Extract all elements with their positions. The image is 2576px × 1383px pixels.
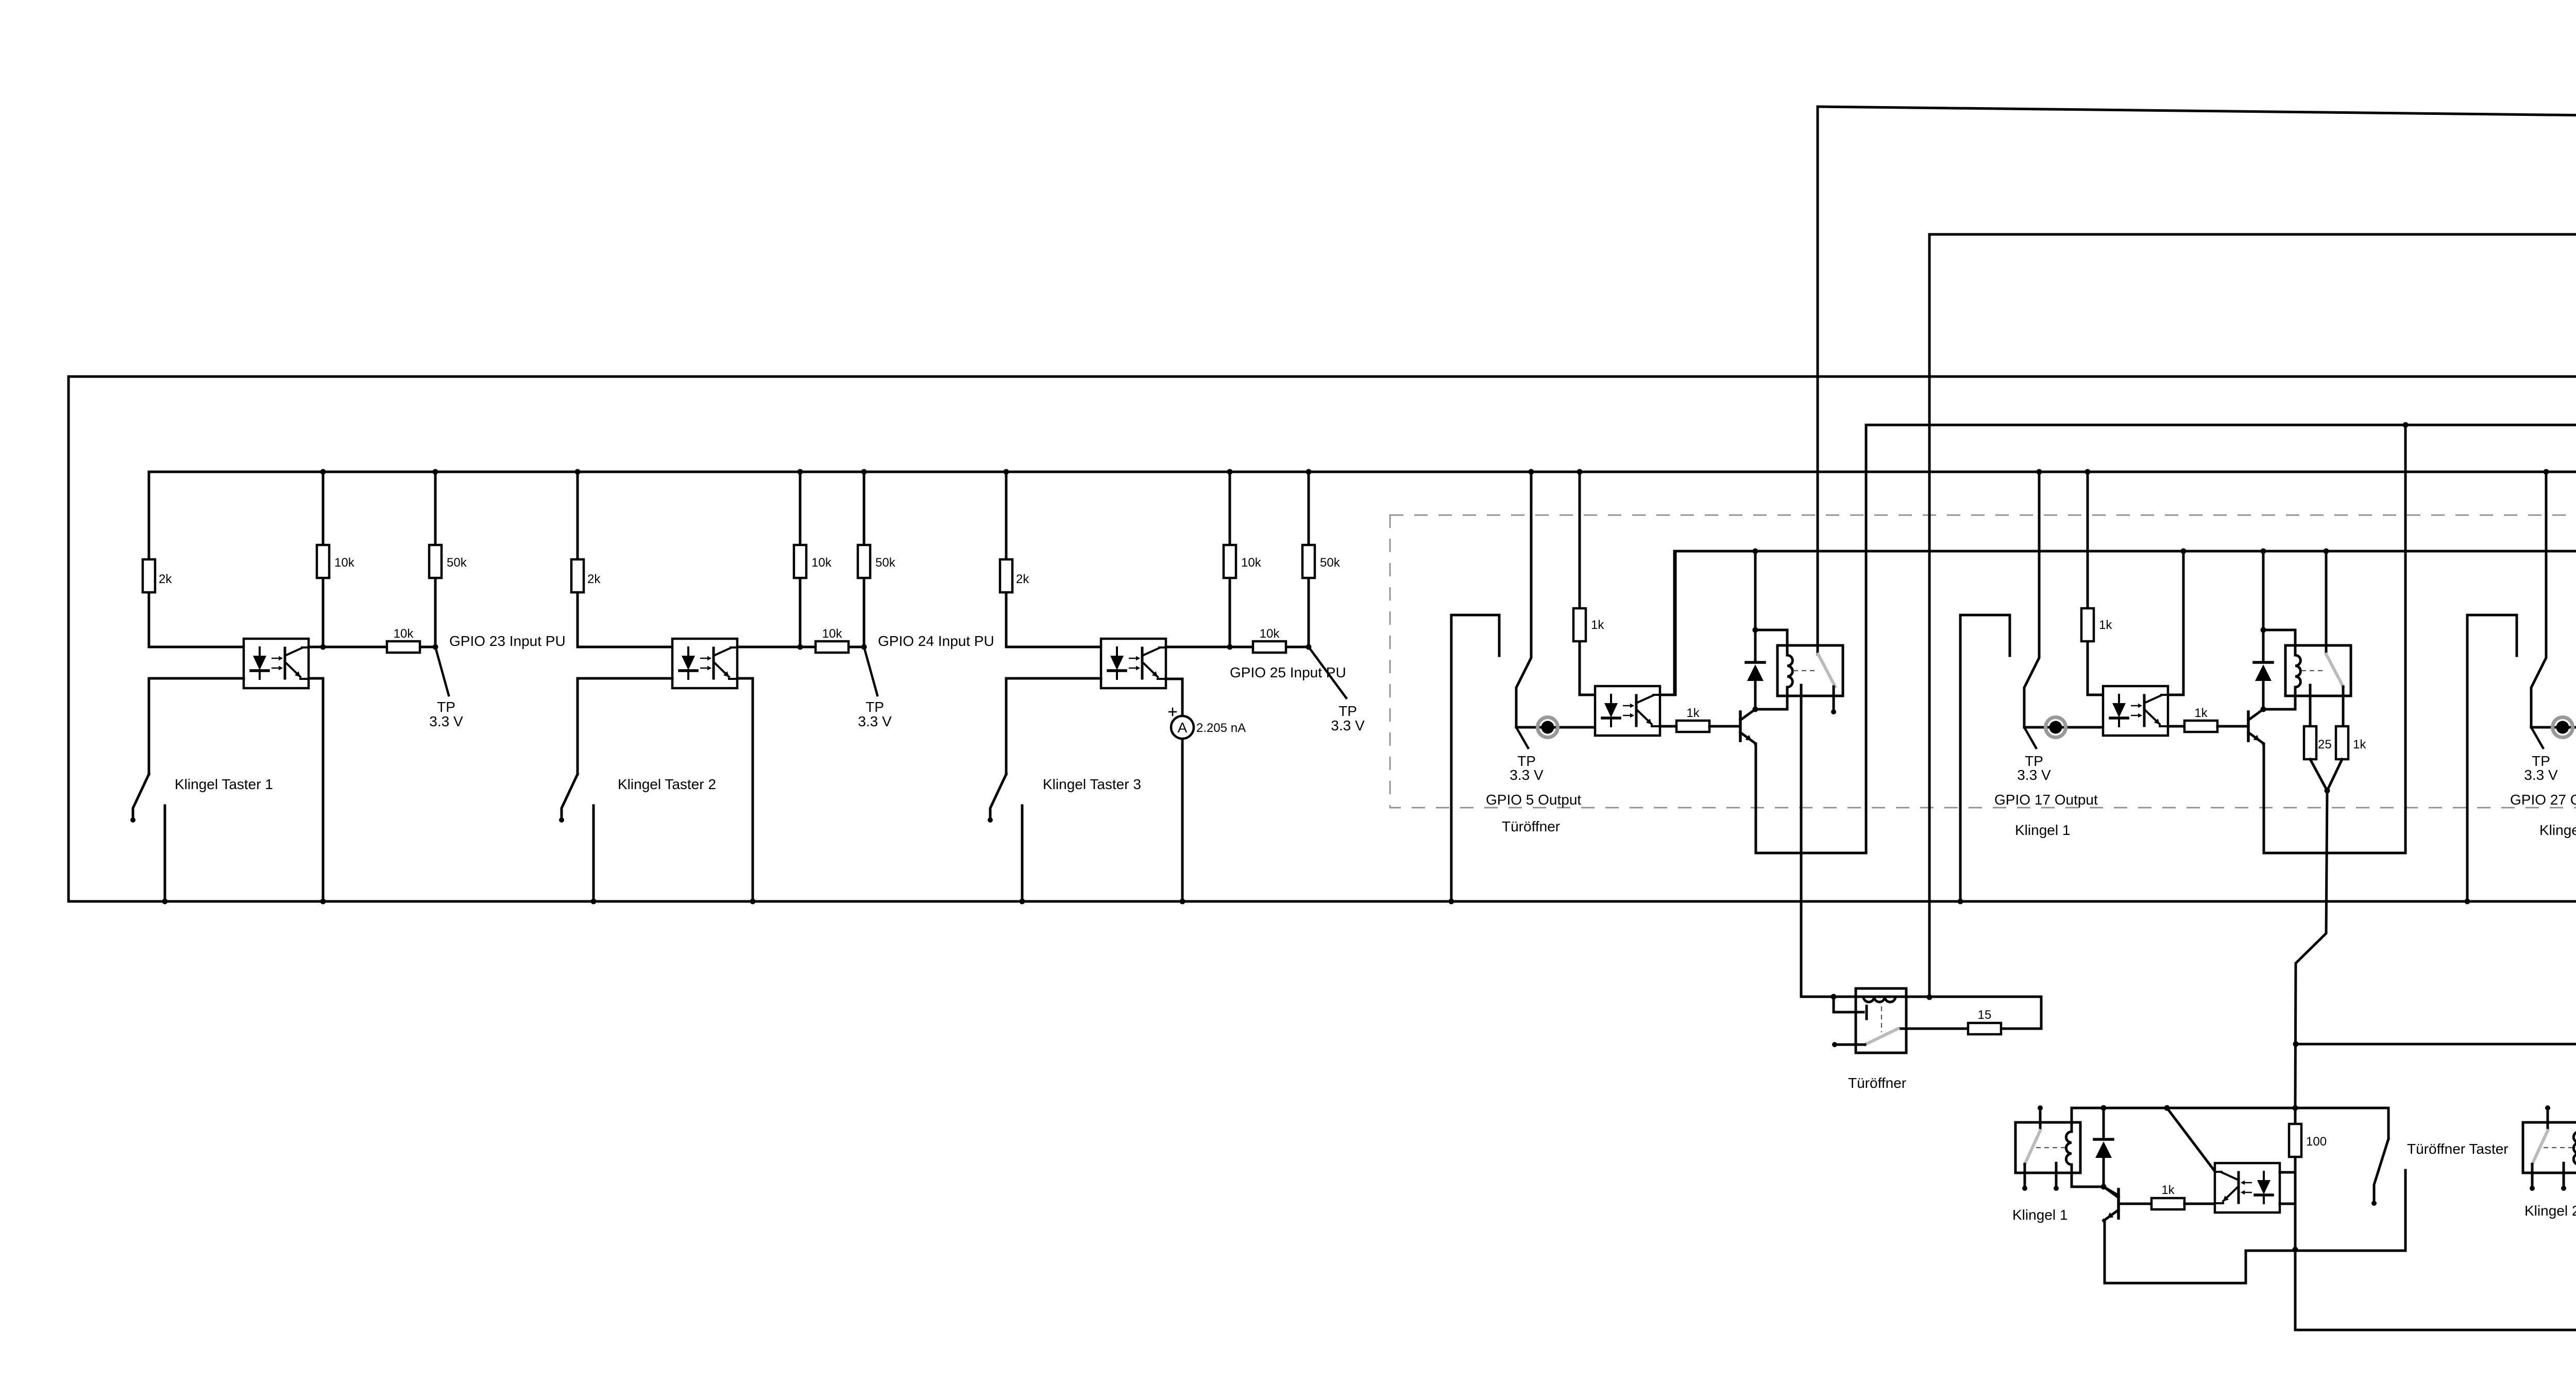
relay contact arm: [1818, 654, 1835, 687]
wire coil bottom link: [1755, 708, 1787, 711]
wire GND 5V bus: [1866, 424, 2576, 426]
resistor R 1k base: [2184, 721, 2217, 732]
diode D Klingel 1: [2094, 1139, 2113, 1158]
wire emitter loop: [2104, 1220, 2246, 1283]
svg-text:1k: 1k: [2099, 618, 2112, 632]
resistor R 2k cell 2: [571, 559, 584, 592]
TP ring GPIO 5 Output: [1538, 718, 1558, 738]
wire hook to bottom bus: [2467, 615, 2517, 901]
svg-text:15: 15: [1978, 1008, 1992, 1022]
wire opto out to base resistor: [2168, 725, 2184, 728]
wire input bottom bus: [69, 900, 2576, 903]
relay pivot stub: [2039, 1111, 2042, 1131]
node diode top: [2101, 1105, 2107, 1111]
opto U GPIO 17 Output: [2103, 686, 2168, 736]
relay dashed link: [1793, 670, 1816, 671]
switch Klingel Taster 1: [130, 678, 244, 901]
wire opto output to GPIO node cell 3: [1166, 646, 1253, 648]
resistor R 50k cell 2: [858, 545, 870, 578]
relay coil: [2066, 1132, 2072, 1165]
output cell GPIO 5 Output: [1449, 469, 1843, 997]
central Türöffner relay block: [1801, 988, 2041, 1091]
wire contact to 1k: [2342, 687, 2345, 726]
wire 100 resistor column: [2294, 1108, 2297, 1124]
wire relay supply from 5V rail: [1754, 551, 1757, 630]
svg-text:Klingel Taster 2: Klingel Taster 2: [618, 776, 716, 792]
svg-text:1k: 1k: [2353, 738, 2366, 752]
svg-text:3.3 V: 3.3 V: [2524, 767, 2558, 783]
wire opto collector riser to 5V rail: [1660, 551, 1675, 695]
svg-text:2k: 2k: [159, 572, 172, 586]
node bus 50k cell 1: [433, 469, 438, 475]
svg-text:2k: 2k: [587, 572, 601, 586]
wire collector to relay node: [1754, 708, 1757, 711]
resistor R 10k series cell 2: [816, 641, 849, 653]
relay coil: [2573, 1132, 2576, 1165]
node 5V rail coil feed: [2261, 549, 2266, 554]
svg-text:50k: 50k: [1320, 556, 1341, 570]
svg-text:25: 25: [2318, 738, 2332, 752]
node top wire 100: [2293, 1105, 2298, 1111]
wire link line y2027 Klingel1-Klingel2-opto3: [2296, 1043, 2576, 1046]
relay contact arm: [1865, 1029, 1898, 1045]
TP probe line cell 1: [435, 647, 449, 695]
wire coil terminal stub: [1834, 997, 1863, 1012]
wire 2k leg cell 3: [1005, 472, 1008, 559]
wire emitter loop to GND5V: [1755, 744, 1756, 853]
wire coil drop: [2071, 1108, 2073, 1132]
wire contact feed with 15 resistor: [2001, 997, 2041, 1029]
output cell GPIO 27 Output: [2465, 422, 2576, 1108]
resistor R 100: [2289, 1124, 2301, 1157]
wire base: [2119, 1203, 2151, 1205]
wire relay common from 5V rail: [2325, 551, 2328, 654]
diode D GPIO 17 Output: [2254, 662, 2273, 681]
wire opto anode diagonal: [2167, 1108, 2215, 1171]
node 5V rail relay common: [2324, 549, 2329, 554]
svg-text:Klingel Taster 3: Klingel Taster 3: [1043, 776, 1141, 792]
wire V merge: [2310, 759, 2327, 791]
opto U2 input: [672, 639, 737, 688]
relay dashed link: [2036, 1147, 2065, 1148]
node column y2426: [2293, 1247, 2298, 1253]
node opto-bus cell 3: [1180, 899, 1185, 904]
svg-text:GPIO 5 Output: GPIO 5 Output: [1486, 792, 1581, 808]
relay coil: [2294, 630, 2297, 655]
wire 5V rail y1070: [1674, 550, 2576, 553]
node bus 50k cell 3: [1306, 469, 1312, 475]
wire base: [1709, 725, 1740, 728]
wire 10k leg cell 3: [1229, 472, 1231, 545]
resistor R 1k base: [2151, 1198, 2184, 1209]
resistor R 50k cell 3: [1302, 545, 1315, 578]
svg-text:50k: 50k: [875, 556, 896, 570]
svg-text:100: 100: [2306, 1135, 2327, 1149]
svg-text:Klingel 1: Klingel 1: [2012, 1207, 2067, 1223]
wire NC contact to central relay: [1800, 685, 1803, 997]
node bus 50k cell 2: [861, 469, 867, 475]
svg-text:2k: 2k: [1016, 572, 1029, 586]
wire 12V top feed: [1818, 107, 2576, 123]
node opto-10k cell 1: [320, 644, 326, 650]
node relay coil bottom: [1753, 707, 1758, 712]
wire contact terminal: [1833, 687, 1835, 709]
node opto-bus cell 1: [320, 899, 326, 904]
node hook-bus: [1449, 899, 1454, 904]
node emitter-GND5V: [2403, 422, 2409, 428]
node switch-bus cell 3: [1020, 899, 1025, 904]
wire 50k leg cell 3: [1308, 472, 1310, 545]
svg-text:3.3 V: 3.3 V: [429, 713, 463, 729]
svg-text:A: A: [1178, 720, 1188, 736]
node opto-bus cell 2: [750, 899, 756, 904]
node hook-bus: [2465, 899, 2470, 904]
wire GPIO switch feed from 3.3V bus: [2024, 472, 2039, 727]
svg-text:1k: 1k: [2161, 1183, 2175, 1197]
node relay coil top: [2261, 627, 2266, 633]
relay coil horizontal: [1863, 997, 1895, 1002]
dashed box GPIO output region: [1390, 515, 2576, 808]
svg-text:Klingel 1: Klingel 1: [2015, 822, 2070, 838]
TP ring GPIO 27 Output: [2553, 718, 2573, 738]
node bus-1k: [1577, 469, 1583, 475]
svg-text:Klingel Taster 1: Klingel Taster 1: [175, 776, 273, 792]
TP probe line cell 2: [864, 647, 877, 695]
resistor R 2k cell 3: [1000, 559, 1012, 592]
input cell Klingel Taster 1: [130, 469, 566, 904]
node bus-switch: [2037, 469, 2042, 475]
resistor R 15: [1968, 1023, 2001, 1034]
relay contact lead terminal: [2531, 1164, 2534, 1186]
wire 50k leg cell 2: [863, 472, 866, 545]
node link y2027 Klingel1: [2293, 1041, 2299, 1047]
wire link down to bell cell: [2295, 791, 2327, 1108]
bell cell Klingel 1: [2012, 1105, 2509, 1330]
relay contact arm: [2532, 1131, 2548, 1164]
node riser-5V rail: [2181, 549, 2187, 554]
node opto-10k cell 2: [798, 644, 803, 650]
opto U Klingel 1: [2215, 1163, 2280, 1213]
svg-text:Türöffner: Türöffner: [1848, 1075, 1906, 1091]
svg-text:Türöffner Taster: Türöffner Taster: [2407, 1141, 2509, 1157]
svg-text:2.205 nA: 2.205 nA: [1196, 721, 1246, 735]
svg-text:3.3 V: 3.3 V: [858, 713, 892, 729]
node hook-bus: [1958, 899, 1963, 904]
wire opto emitter to bus cell 1: [309, 678, 323, 901]
wire 5V rail riser GPIO5 opto: [1673, 551, 1676, 695]
wire 3.3V top bus: [149, 471, 2576, 473]
svg-text:10k: 10k: [1260, 627, 1280, 641]
TP ring GPIO 17 Output: [2046, 718, 2066, 738]
switch Klingel Taster 2: [559, 678, 672, 901]
opto U GPIO 5 Output: [1595, 686, 1660, 736]
resistor R 10k series cell 3: [1253, 641, 1286, 653]
node 5V rail coil feed: [1753, 549, 1758, 554]
resistor R 1k pullup: [1573, 608, 1586, 641]
node bus-1k: [2085, 469, 2091, 475]
svg-text:TP: TP: [437, 699, 455, 715]
relay K GPIO 17 Output: [2285, 549, 2351, 710]
relay contact arm: [2025, 1131, 2040, 1164]
svg-text:1k: 1k: [1686, 706, 1700, 720]
svg-text:10k: 10k: [811, 556, 832, 570]
wire collector to relay node: [2262, 708, 2265, 711]
node V merge: [2325, 788, 2330, 794]
wire left frame vertical: [67, 377, 70, 901]
relay coil: [1786, 630, 1789, 655]
node bus 10k cell 3: [1227, 469, 1233, 475]
node relay coil bottom: [2261, 707, 2266, 712]
svg-text:10k: 10k: [1241, 556, 1262, 570]
svg-text:GPIO 27 Output: GPIO 27 Output: [2510, 792, 2576, 808]
node bus 10k cell 1: [320, 469, 326, 475]
wire 1k pullup leg: [1579, 472, 1581, 608]
relay K Klingel 2: [2523, 1105, 2576, 1191]
resistor R 10k series cell 1: [387, 641, 420, 653]
svg-text:GPIO 23 Input PU: GPIO 23 Input PU: [449, 633, 566, 649]
svg-text:3.3 V: 3.3 V: [2017, 767, 2051, 783]
wire opto pins to column: [2280, 1171, 2295, 1174]
TP probe line: [2024, 727, 2036, 748]
transistor Q Klingel 1: [2104, 1187, 2119, 1221]
wire 10k leg cell 2: [799, 472, 802, 545]
svg-text:10k: 10k: [334, 556, 355, 570]
wire opto output to GPIO node cell 1: [309, 646, 387, 648]
wire 1k pullup leg: [2087, 472, 2089, 608]
node bus 10k cell 2: [798, 469, 803, 475]
wire 10k leg cell 1: [322, 472, 325, 545]
wire 2k leg cell 2: [577, 472, 579, 559]
relay contact lead terminal: [2024, 1164, 2026, 1186]
relay K GPIO 5 Output: [1777, 630, 1843, 709]
transistor Q GPIO 17 Output: [2248, 709, 2263, 743]
wire TP wire to opto: [1516, 726, 1595, 729]
resistor R 10k pulldown cell 3: [1224, 545, 1236, 578]
node collector: [2101, 1184, 2107, 1190]
svg-text:1k: 1k: [1591, 618, 1604, 632]
node GPIO input node cell 2: [861, 644, 867, 650]
resistor R 10k pulldown cell 1: [317, 545, 329, 578]
diode D flyback: [1754, 630, 1757, 662]
svg-text:3.3 V: 3.3 V: [1510, 767, 1544, 783]
svg-text:1k: 1k: [2194, 706, 2208, 720]
resistor R 50k cell 1: [429, 545, 442, 578]
input cell Klingel Taster 2: [559, 469, 994, 904]
wire contact out terminal: [1837, 1044, 1865, 1046]
TP probe line: [2531, 727, 2543, 748]
wire NC stub to 25: [2309, 685, 2312, 726]
wire relay supply from 5V rail: [2262, 551, 2265, 630]
resistor R 10k pulldown cell 2: [794, 545, 806, 578]
svg-text:Klingel 2: Klingel 2: [2524, 1203, 2576, 1219]
TP probe line: [1516, 727, 1528, 748]
opto U3 input: [1101, 639, 1166, 688]
node GPIO input node cell 3: [1306, 644, 1312, 650]
node switch-bus cell 2: [591, 899, 597, 904]
wire hook to bottom bus: [1960, 615, 2010, 901]
wire GND 3,3V bus: [69, 375, 2576, 378]
switch Klingel Taster 3: [988, 678, 1101, 901]
relay dashed link: [2544, 1147, 2572, 1148]
node coil wire GPIO5 NC: [1831, 994, 1837, 1000]
wire TP wire to opto: [2531, 726, 2576, 729]
node bus-switch: [2544, 469, 2549, 475]
resistor R 25: [2304, 726, 2316, 759]
wire coil top link: [2263, 629, 2295, 631]
diode D flyback: [2262, 630, 2265, 662]
wire opto emitter to bus cell 2: [737, 678, 753, 901]
relay dashed link: [1881, 1006, 1882, 1032]
node switch-bus cell 1: [162, 899, 168, 904]
wire bottom GND bus: [2295, 472, 2576, 1330]
node bus 2k cell 3: [1004, 469, 1009, 475]
svg-text:TP: TP: [1338, 703, 1357, 719]
svg-text:Türöffner: Türöffner: [1502, 818, 1560, 834]
resistor R 1k pullup: [2081, 608, 2094, 641]
resistor R 1k contact: [2336, 726, 2348, 759]
wire hook to bottom bus: [1451, 615, 1499, 901]
node GPIO input node cell 1: [433, 644, 438, 650]
wire emitter loop to GND5V: [2263, 425, 2405, 853]
output cell GPIO 17 Output: [1958, 422, 2409, 1108]
wire collector: [2104, 1187, 2119, 1196]
terminal dot: [1831, 709, 1836, 714]
svg-text:10k: 10k: [822, 627, 843, 641]
relay dashed link: [2301, 670, 2324, 671]
relay K Türöffner: [1856, 988, 1906, 1053]
TP probe line cell 3: [1309, 647, 1346, 698]
opto U1 input: [244, 639, 309, 688]
wire 50k leg cell 1: [434, 472, 437, 545]
node bus 2k cell 2: [575, 469, 581, 475]
ammeter A1 2.205 nA: [1169, 708, 1194, 739]
resistor R 1k base: [1676, 721, 1709, 732]
wire coil line: [1801, 996, 2041, 998]
wire opto emitter to bus cell 3: [1166, 679, 1182, 716]
wire cell top wire: [2072, 1107, 2388, 1109]
node bus-switch: [1529, 469, 1534, 475]
wire 12V common vertical to GPIO5 relay: [1817, 107, 1819, 654]
relay pivot stub: [2547, 1111, 2549, 1131]
wire TP wire to opto: [2024, 726, 2103, 729]
svg-text:10k: 10k: [394, 627, 414, 641]
wire opto collector riser to 5V rail: [2168, 551, 2183, 695]
node opto-10k cell 3: [1227, 644, 1233, 650]
wire GPIO switch feed from 3.3V bus: [1516, 472, 1531, 727]
relay contact arm: [2326, 654, 2343, 687]
wire opto output to GPIO node cell 2: [737, 646, 816, 648]
relay second stub terminal: [2563, 1163, 2565, 1186]
wire coil bottom link: [2263, 708, 2295, 711]
svg-text:GPIO 24 Input PU: GPIO 24 Input PU: [878, 633, 994, 649]
diode D GPIO 5 Output: [1746, 662, 1765, 681]
wire 2k leg cell 1: [148, 472, 150, 559]
wire base: [2217, 725, 2248, 728]
wire GND5V bus left leg down to GPIO5 emitter: [1756, 425, 1866, 853]
svg-text:3.3 V: 3.3 V: [1331, 718, 1365, 733]
svg-text:TP: TP: [866, 699, 884, 715]
svg-text:Klingel 2: Klingel 2: [2539, 822, 2576, 838]
relay second stub terminal: [2055, 1163, 2058, 1186]
wire GPIO switch feed from 3.3V bus: [2531, 472, 2546, 727]
svg-text:GPIO 17 Output: GPIO 17 Output: [1994, 792, 2098, 808]
diode D flyback: [2103, 1108, 2105, 1139]
node top wire diagonal: [2164, 1105, 2170, 1111]
bell cell Klingel 2: [2523, 1105, 2576, 1330]
transistor Q GPIO 5 Output: [1740, 709, 1755, 743]
node coil wire 12V return: [1927, 995, 1933, 1000]
wire 12V return: [1929, 234, 2576, 997]
input cell Klingel Taster 3: [988, 469, 1365, 904]
switch Türöffner Taster 1: [2246, 1108, 2405, 1251]
relay K Klingel 1: [2015, 1105, 2080, 1191]
svg-text:50k: 50k: [447, 556, 467, 570]
node relay coil top: [1753, 627, 1758, 633]
wire opto out to base resistor: [1660, 725, 1676, 728]
wire coil top link: [1755, 629, 1787, 631]
resistor R 2k cell 1: [143, 559, 155, 592]
